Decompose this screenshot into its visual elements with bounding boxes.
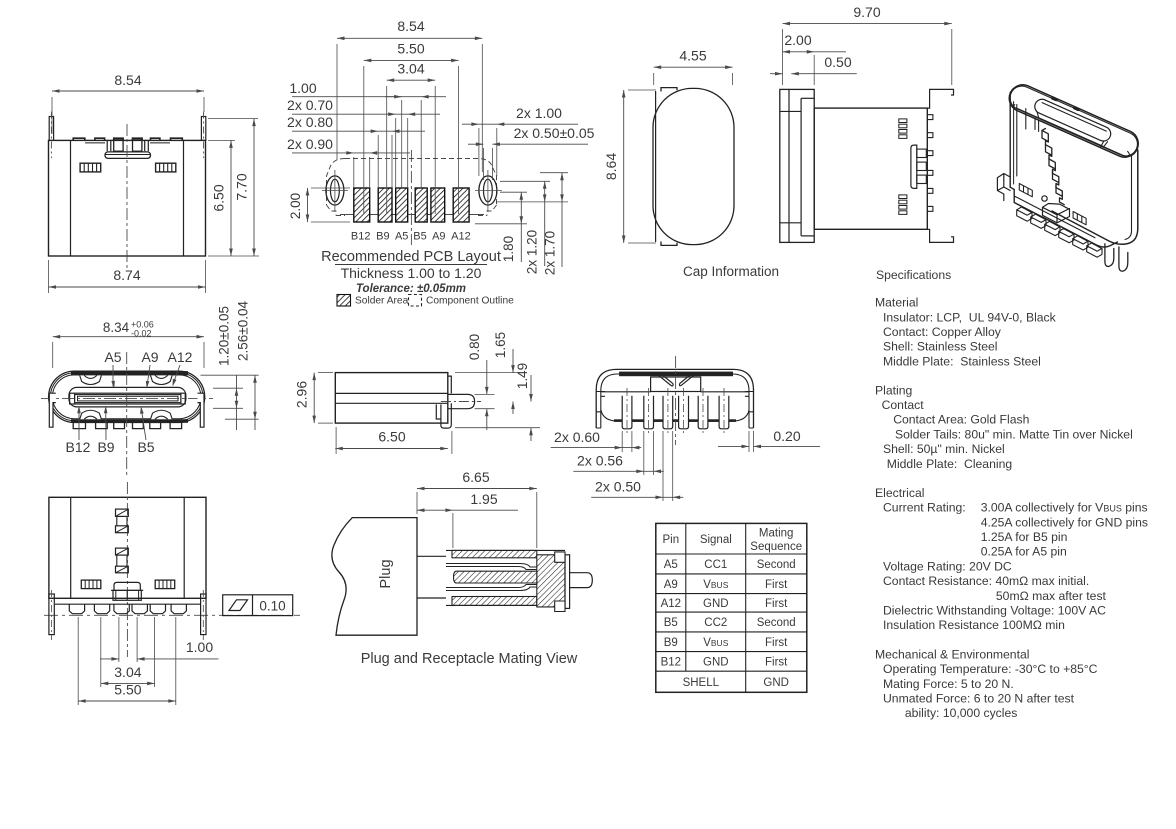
svg-text:2x 0.56: 2x 0.56 (577, 453, 623, 469)
svg-text:Sequence: Sequence (750, 541, 802, 553)
vertical centerline bottom view (675, 356, 677, 445)
svg-text:8.54: 8.54 (114, 72, 141, 88)
svg-text:2x 0.70: 2x 0.70 (287, 97, 333, 113)
svg-text:0.50: 0.50 (824, 54, 851, 70)
iso opening ring inner (1010, 86, 1137, 156)
latch diagonals (657, 373, 674, 386)
iso tongue bar (1035, 99, 1111, 141)
svg-text:6.65: 6.65 (462, 469, 489, 485)
svg-text:3.04: 3.04 (114, 664, 141, 680)
main body side (814, 108, 927, 229)
svg-text:Shell: 50µ" min. Nickel: Shell: 50µ" min. Nickel (883, 442, 1005, 456)
lower contact spring (446, 585, 537, 591)
svg-text:ability: 10,000 cycles: ability: 10,000 cycles (905, 706, 1017, 720)
pad row centerline (340, 214, 484, 216)
vent window right (155, 580, 175, 589)
svg-text:First: First (765, 637, 788, 649)
svg-text:1.00: 1.00 (289, 80, 316, 96)
flatness callout frame (223, 595, 293, 616)
left vent window (80, 163, 101, 172)
iso right legs (1105, 244, 1114, 267)
dim 9.70 (782, 29, 784, 85)
svg-text:A9: A9 (141, 349, 158, 365)
svg-text:1.20±0.05: 1.20±0.05 (217, 306, 232, 366)
iso front face bottom rails (1010, 187, 1117, 247)
svg-text:Second: Second (757, 617, 796, 629)
svg-text:50mΩ max after test: 50mΩ max after test (996, 589, 1107, 603)
svg-text:6.50: 6.50 (211, 184, 227, 211)
svg-text:1.25A for B5 pin: 1.25A for B5 pin (981, 530, 1068, 544)
rear view 2 body (49, 497, 206, 598)
svg-text:1.49: 1.49 (515, 363, 530, 389)
cap top tab (661, 88, 677, 92)
svg-text:Solder Area: Solder Area (355, 296, 409, 307)
iso tongue left support (1035, 118, 1039, 132)
svg-text:First: First (765, 656, 788, 668)
iso vent hole 1 (1019, 184, 1032, 197)
flatness symbol (229, 600, 248, 611)
svg-text:Mechanical & Environmental: Mechanical & Environmental (875, 647, 1029, 661)
solder tails (622, 396, 632, 429)
cap side section (780, 89, 814, 242)
dim 5.50 rear2 (77, 617, 79, 705)
svg-text:Plug and Receptacle Mating Vie: Plug and Receptacle Mating View (361, 651, 578, 667)
top edge tabs (73, 138, 85, 140)
dim 3.04 pcb (386, 86, 388, 214)
dim 2.96 (318, 372, 333, 374)
rear view shell outline (49, 72, 260, 293)
dim 0.50 (770, 73, 783, 75)
iso interior left wall lines (1016, 105, 1018, 177)
svg-text:8.54: 8.54 (397, 18, 424, 34)
svg-text:SHELL: SHELL (683, 677, 720, 689)
vertical centerline (126, 124, 128, 271)
svg-text:GND: GND (703, 598, 729, 610)
svg-text:Tolerance: ±0.05mm: Tolerance: ±0.05mm (356, 283, 466, 295)
svg-text:1.80: 1.80 (501, 236, 516, 262)
svg-text:Component Outline: Component Outline (426, 296, 514, 307)
svg-text:Operating Temperature: -30°C t: Operating Temperature: -30°C to +85°C (883, 662, 1098, 676)
right vent window (156, 163, 176, 172)
plug body with break line (332, 518, 417, 636)
center latch rect (651, 377, 701, 392)
dim 2x 1.70 (540, 172, 568, 174)
svg-text:Pin: Pin (662, 534, 679, 546)
bottom view lower band (601, 410, 749, 421)
iso opening ring outer (1009, 85, 1138, 157)
dim 2x 1.20 (500, 180, 550, 182)
vent marks lower (899, 195, 907, 199)
svg-text:0.20: 0.20 (773, 428, 800, 444)
svg-text:3.00A collectively for VBUS pi: 3.00A collectively for VBUS pins (981, 501, 1148, 515)
right side bracket (198, 393, 205, 427)
tongue housing (70, 393, 186, 404)
side view body (335, 373, 448, 424)
side solder foot (436, 403, 451, 428)
svg-text:Unmated Force: 6 to 20 N after: Unmated Force: 6 to 20 N after test (883, 692, 1075, 706)
svg-text:1.65: 1.65 (493, 332, 508, 358)
solder pad B12 (354, 188, 370, 222)
svg-text:B9: B9 (97, 439, 114, 455)
svg-text:2x 0.50±0.05: 2x 0.50±0.05 (514, 125, 595, 141)
through-board peg (911, 145, 917, 188)
svg-text:8.64: 8.64 (603, 153, 619, 180)
svg-text:2x 0.90: 2x 0.90 (287, 136, 333, 152)
svg-text:B12: B12 (351, 231, 371, 243)
bottom latch (114, 582, 140, 590)
left side bracket (49, 393, 56, 427)
iso mounting foot left (997, 174, 1010, 201)
cavity edge lines (601, 391, 651, 393)
bottom contact bumps (80, 410, 102, 419)
solder pad A9 (431, 188, 445, 222)
tongue blade (75, 395, 181, 403)
dim 1.65 (455, 372, 520, 374)
vertical centerline front (126, 352, 128, 478)
svg-text:Cap Information: Cap Information (683, 264, 779, 279)
svg-text:Middle Plate: Stainless Steel: Middle Plate: Stainless Steel (883, 354, 1041, 368)
dim 2x 0.70 (395, 118, 397, 188)
svg-text:Material: Material (875, 296, 918, 310)
bottom right bracket (927, 229, 953, 242)
top right bracket (927, 89, 953, 108)
left ear tab (49, 117, 53, 141)
svg-text:B5: B5 (413, 231, 426, 243)
dim 1.49 (455, 427, 540, 429)
svg-text:CC2: CC2 (704, 617, 727, 629)
dim 2x 0.80 (377, 135, 379, 188)
right oval hole (479, 176, 497, 205)
receptacle top shell band hatched (452, 550, 537, 557)
dim 3.04 rear2 (100, 617, 102, 687)
front cavity (69, 387, 186, 407)
tongue hatched (454, 571, 537, 583)
vertical centerline rear2 (126, 482, 128, 657)
svg-text:8.74: 8.74 (113, 267, 140, 283)
front bottom edge band (71, 419, 188, 423)
svg-text:0.10: 0.10 (259, 599, 285, 614)
top contact bumps (80, 375, 102, 384)
svg-text:Shell: Stainless Steel: Shell: Stainless Steel (883, 340, 998, 354)
svg-text:2.00: 2.00 (288, 193, 303, 219)
left bracket bottom view (596, 392, 605, 429)
legend component outline (409, 295, 422, 307)
svg-text:4.25A collectively for GND pin: 4.25A collectively for GND pins (981, 515, 1148, 529)
dim 1.95 (452, 513, 454, 548)
horizontal centerline (41, 398, 213, 400)
svg-text:2x 0.50: 2x 0.50 (595, 479, 641, 495)
svg-text:B12: B12 (661, 656, 681, 668)
svg-text:Contact Resistance: 40mΩ max i: Contact Resistance: 40mΩ max initial. (883, 574, 1089, 588)
dim 2.56±0.04 (225, 418, 259, 420)
side tongue (448, 394, 475, 408)
bottom view shell outline (596, 369, 753, 428)
svg-text:2.96: 2.96 (294, 381, 310, 408)
vent marks upper (899, 119, 907, 123)
svg-text:2x 0.60: 2x 0.60 (554, 429, 600, 445)
svg-text:1.00: 1.00 (186, 639, 213, 655)
dim 0.80 (475, 393, 495, 395)
svg-text:B9: B9 (376, 231, 389, 243)
svg-text:Middle Plate: Cleaning: Middle Plate: Cleaning (887, 457, 1012, 471)
receptacle rear block hatched (537, 555, 565, 607)
svg-text:Contact: Copper Alloy: Contact: Copper Alloy (883, 325, 1002, 339)
svg-text:GND: GND (703, 656, 729, 668)
front bottom tabs (73, 423, 85, 429)
solder pad A12 (453, 188, 469, 222)
iso ring tick marks (1053, 98, 1057, 100)
dim 6.65 (416, 492, 418, 514)
dim 8.54 pcb (336, 44, 338, 160)
svg-text:A5: A5 (104, 349, 121, 365)
svg-text:7.70: 7.70 (234, 173, 250, 200)
svg-text:A5: A5 (664, 559, 678, 571)
vent window left (81, 580, 101, 589)
right ear rear2 (201, 594, 206, 635)
dim 2x 0.60 (621, 431, 623, 452)
side front lip (448, 376, 451, 393)
svg-text:2x 1.70: 2x 1.70 (543, 231, 558, 275)
plug stem lines (417, 555, 446, 557)
svg-text:6.50: 6.50 (378, 429, 405, 445)
cap outline (653, 88, 734, 244)
rear peg (570, 573, 593, 588)
svg-text:2.00: 2.00 (784, 32, 811, 48)
iso center latch detail (1043, 204, 1070, 223)
PCB layout component outline (dashed) (327, 159, 497, 216)
dim 2x 0.56 (643, 431, 645, 475)
center contact rects (116, 509, 129, 516)
svg-text:5.50: 5.50 (397, 41, 424, 57)
svg-text:A12: A12 (451, 231, 471, 243)
rear small step top (555, 552, 565, 562)
svg-text:Thickness 1.00 to 1.20: Thickness 1.00 to 1.20 (341, 265, 482, 281)
dim 5.50 pcb (363, 66, 365, 214)
svg-text:2x 1.20: 2x 1.20 (525, 230, 540, 274)
svg-text:4.55: 4.55 (679, 48, 706, 64)
svg-text:Plug: Plug (378, 559, 394, 588)
rear plate (565, 555, 570, 609)
svg-text:B5: B5 (137, 439, 154, 455)
svg-text:-0.02: -0.02 (131, 329, 152, 339)
solder pad A5 (396, 188, 408, 222)
dim 8.54 top (51, 97, 53, 134)
svg-text:Specifications: Specifications (876, 268, 951, 282)
svg-text:First: First (765, 598, 788, 610)
dim 0.20 (748, 431, 750, 452)
center latch (106, 140, 108, 151)
svg-text:5.50: 5.50 (114, 682, 141, 698)
svg-text:9.70: 9.70 (853, 4, 880, 20)
svg-text:Solder Tails: 80u" min. Matte: Solder Tails: 80u" min. Matte Tin over N… (895, 427, 1133, 441)
seating plane dash-dot (44, 614, 300, 616)
svg-text:Second: Second (757, 559, 796, 571)
bottom view top dark band (619, 372, 733, 377)
svg-text:Plating: Plating (875, 383, 912, 397)
svg-text:VBUS: VBUS (703, 637, 728, 649)
svg-text:A9: A9 (432, 231, 445, 243)
svg-text:1.95: 1.95 (470, 491, 497, 507)
svg-text:CC1: CC1 (704, 559, 727, 571)
svg-text:Electrical: Electrical (875, 486, 924, 500)
dim 2.00 cap (813, 55, 815, 85)
svg-text:Contact Area: Gold Flash: Contact Area: Gold Flash (893, 413, 1029, 427)
iso zigzag contact steps (1042, 129, 1064, 205)
svg-text:Current Rating:: Current Rating: (883, 501, 966, 515)
left oval hole (326, 176, 344, 205)
svg-text:Dielectric Withstanding Voltag: Dielectric Withstanding Voltage: 100V AC (883, 604, 1106, 618)
front view shell outer (49, 371, 205, 422)
svg-text:B12: B12 (66, 439, 91, 455)
right ear tab (201, 117, 205, 141)
svg-text:2.56±0.04: 2.56±0.04 (236, 301, 251, 361)
iso right side (1052, 150, 1138, 244)
svg-text:B5: B5 (664, 617, 678, 629)
svg-text:Insulator: LCP, UL 94V-0, Bla: Insulator: LCP, UL 94V-0, Black (883, 310, 1057, 324)
dim 2x 1.00 ovals (478, 128, 480, 176)
receptacle bottom shell band hatched (452, 597, 537, 606)
dim 6.50 side (335, 427, 337, 454)
svg-text:VBUS: VBUS (703, 579, 728, 591)
pin table frame (656, 523, 807, 692)
svg-text:A12: A12 (168, 349, 193, 365)
dim 1.20±0.05 (201, 374, 259, 376)
left ear rear2 (49, 594, 54, 635)
svg-text:Recommended PCB Layout: Recommended PCB Layout (321, 249, 501, 265)
cap bottom tab (661, 242, 677, 246)
dim 8.74 bottom (48, 260, 50, 293)
svg-text:8.34: 8.34 (103, 320, 130, 335)
svg-text:Mating Force: 5 to 20 N.: Mating Force: 5 to 20 N. (883, 677, 1014, 691)
dim 2x 0.50 (662, 431, 664, 501)
svg-text:3.04: 3.04 (397, 61, 424, 77)
dim 1.80 (500, 191, 527, 193)
dim 8.64 (628, 89, 656, 91)
dim 2x 0.50±0.05 (482, 148, 484, 180)
dim 2.00 pad height (311, 187, 350, 189)
dim 8.34 +0.06/-0.02 (52, 342, 54, 368)
front view shell inner lines (50, 373, 203, 421)
right edge pins (927, 115, 933, 120)
svg-text:A12: A12 (661, 598, 681, 610)
svg-text:0.25A for A5 pin: 0.25A for A5 pin (981, 545, 1067, 559)
svg-text:A9: A9 (664, 579, 678, 591)
svg-text:2x 1.00: 2x 1.00 (516, 105, 562, 121)
upper contact spring (446, 564, 537, 570)
legend solder area (337, 295, 351, 307)
dim 4.55 (653, 73, 655, 85)
svg-text:A5: A5 (395, 231, 408, 243)
front top edge band (71, 371, 188, 375)
dim 1.00 rear2 (118, 617, 120, 662)
dim 7.70 (208, 118, 258, 120)
svg-text:Signal: Signal (700, 534, 732, 546)
bottom rail and pins (55, 603, 200, 605)
svg-text:Contact: Contact (882, 398, 925, 412)
dim 2x 0.90 (353, 157, 355, 188)
svg-text:Voltage Rating: 20V DC: Voltage Rating: 20V DC (883, 559, 1012, 573)
solder pad B5 (415, 188, 427, 222)
right bracket bottom view (745, 392, 754, 429)
svg-text:0.80: 0.80 (467, 334, 482, 360)
iso vent hole 2 (1073, 212, 1086, 225)
svg-text:First: First (765, 579, 788, 591)
solder pad B9 (378, 188, 392, 222)
svg-text:2x 0.80: 2x 0.80 (287, 114, 333, 130)
iso solder feet row (1017, 207, 1102, 257)
svg-text:GND: GND (763, 677, 789, 689)
svg-text:B9: B9 (664, 637, 678, 649)
svg-text:Mating: Mating (759, 528, 794, 540)
iso inner wall lower contour (1013, 105, 1129, 157)
iso left front edge (1009, 93, 1011, 188)
dim 6.50 (208, 139, 235, 141)
svg-text:Insulation Resistance 100MΩ mi: Insulation Resistance 100MΩ min (883, 618, 1065, 632)
dim 1.00 pcb (401, 100, 403, 188)
